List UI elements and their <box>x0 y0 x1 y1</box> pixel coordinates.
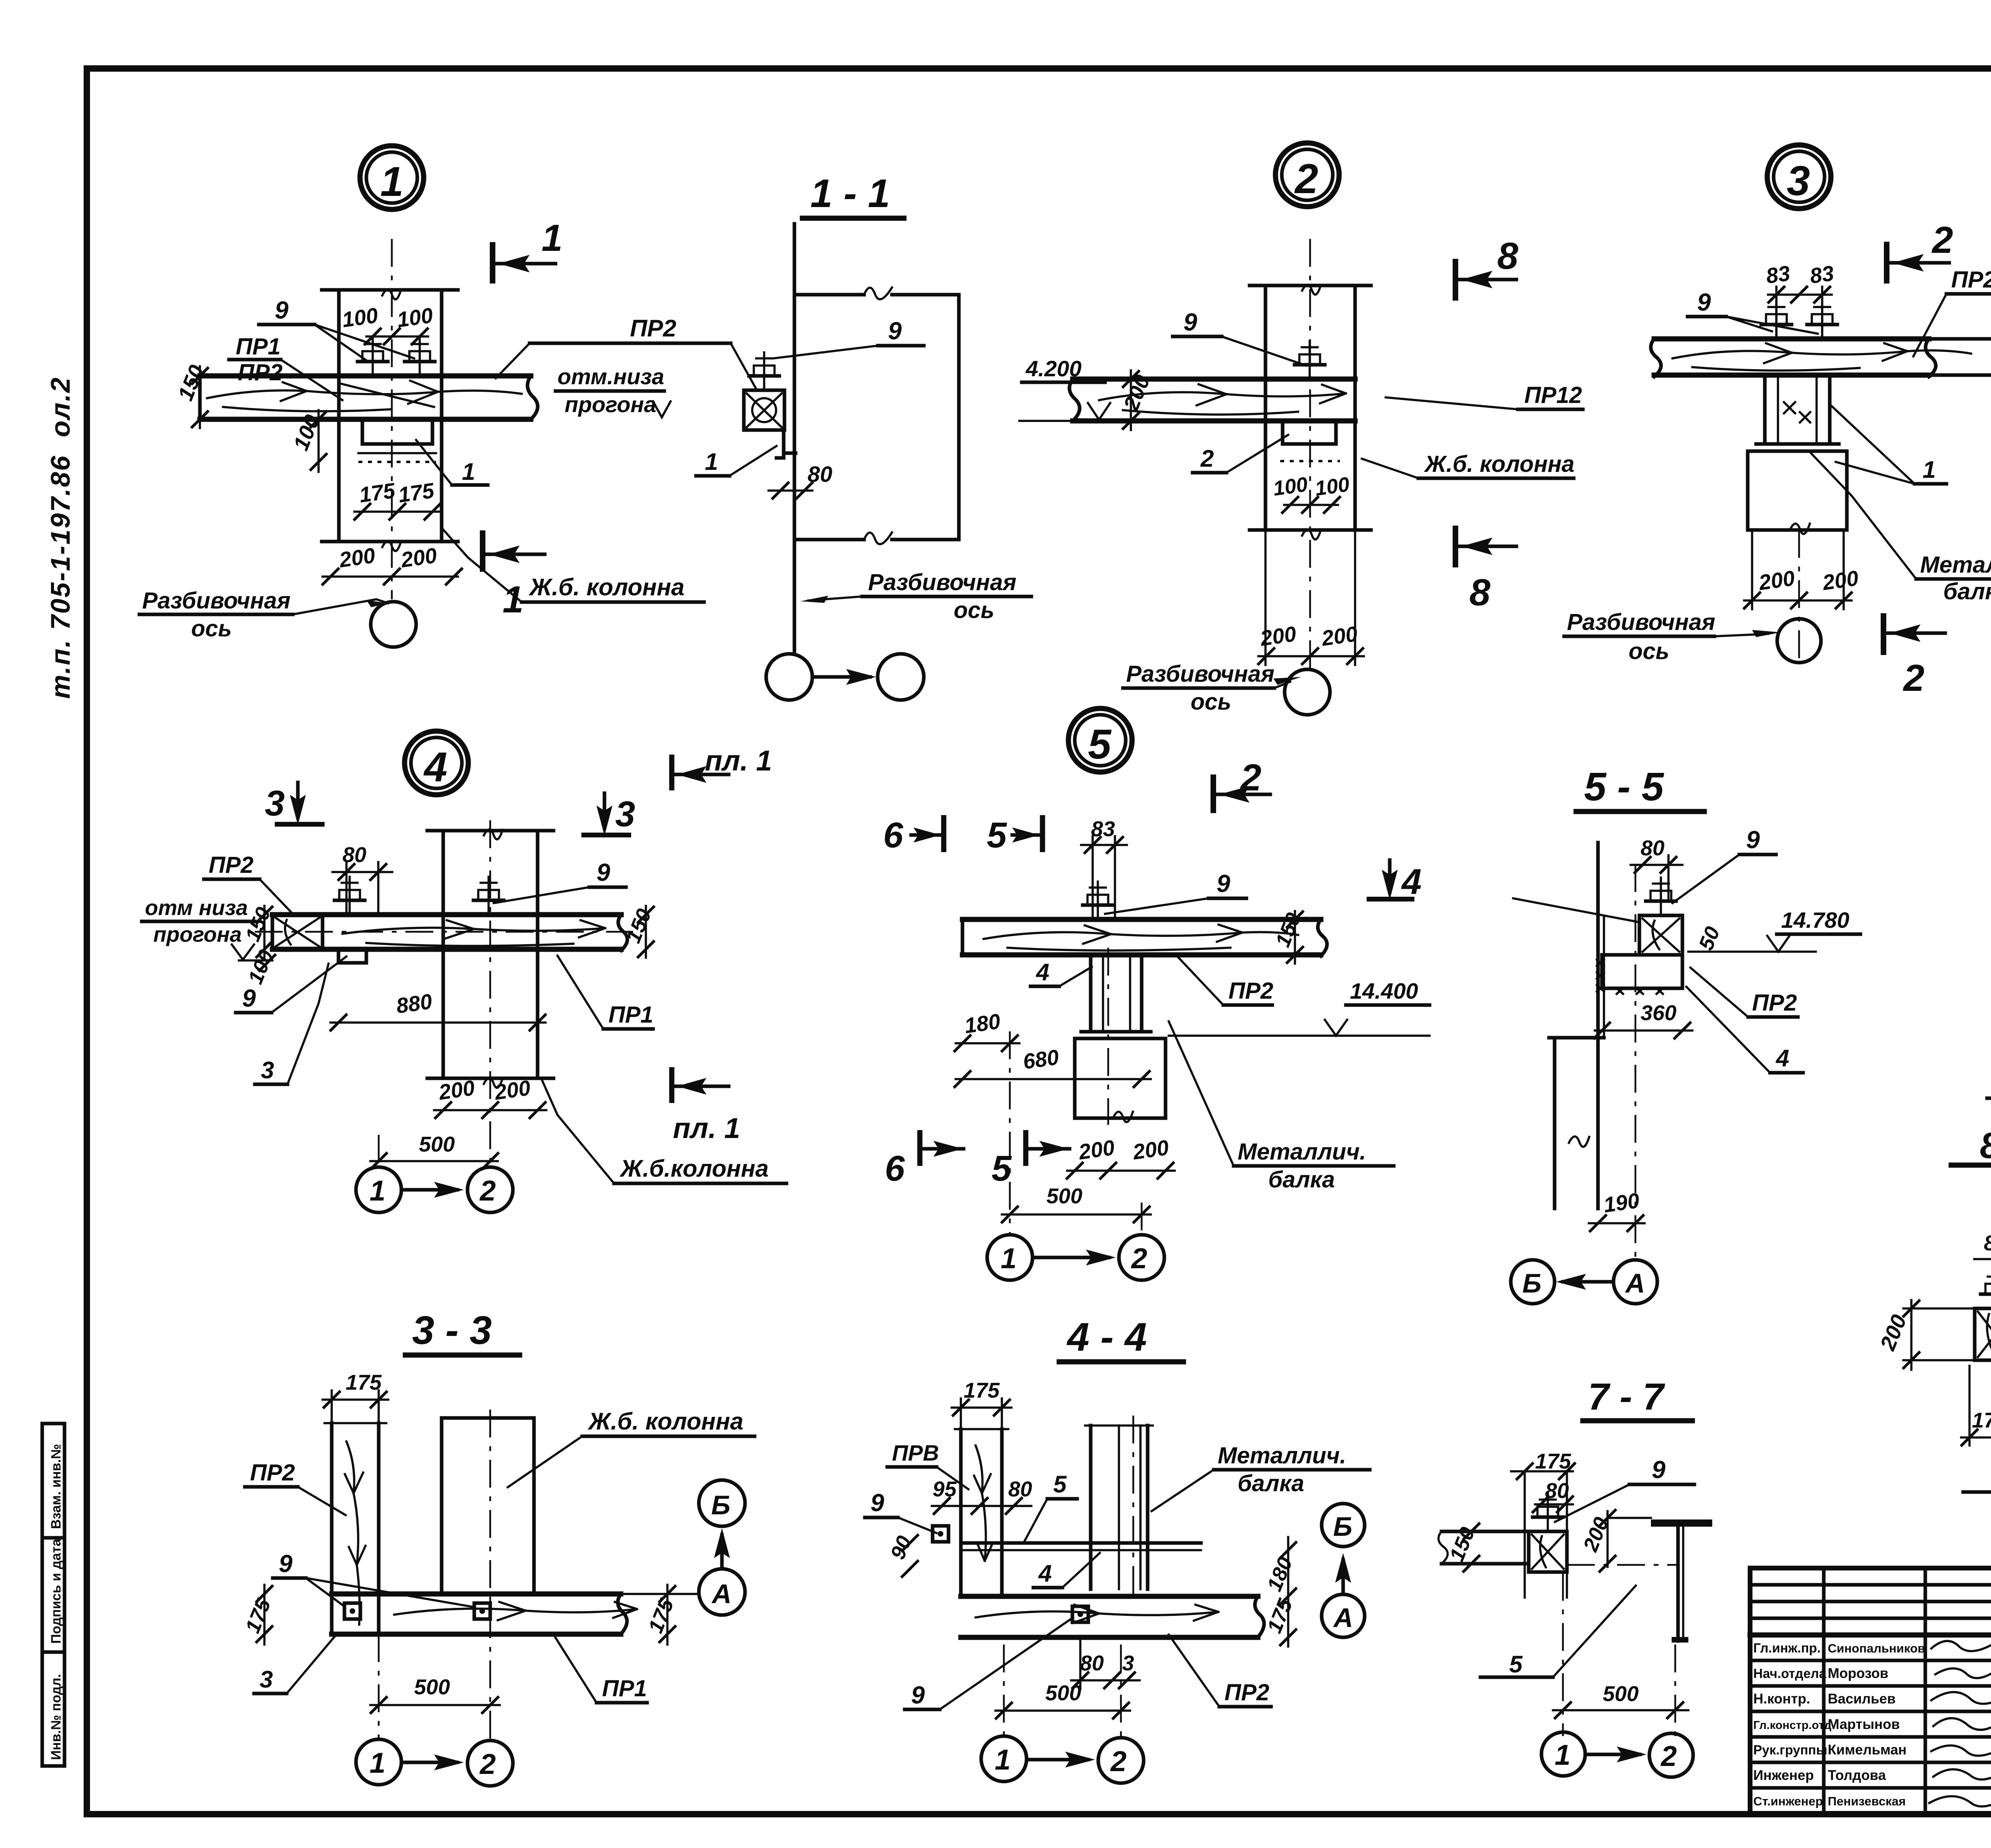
svg-text:4: 4 <box>1036 959 1049 986</box>
svg-text:4: 4 <box>1776 1045 1789 1072</box>
bolt <box>1533 1494 1563 1531</box>
anchor bolts <box>1761 301 1792 339</box>
svg-text:5: 5 <box>987 815 1007 855</box>
svg-text:Б: Б <box>1333 1512 1352 1542</box>
svg-text:8 - 8: 8 - 8 <box>1980 1125 1991 1166</box>
svg-text:прогона: прогона <box>565 392 656 417</box>
svg-text:9: 9 <box>1217 870 1230 898</box>
svg-text:680: 680 <box>1021 1045 1060 1074</box>
title 1-1 <box>802 171 904 218</box>
level 14.400 <box>1169 978 1430 1036</box>
label 3 <box>254 1636 335 1694</box>
dim 190 <box>1589 1189 1645 1232</box>
svg-text:1: 1 <box>462 458 475 485</box>
level mark 4.200 <box>1019 356 1110 421</box>
beam continuation to right <box>1932 330 1991 384</box>
vertical purlin <box>955 1429 1008 1596</box>
svg-text:Инв.№ подл.: Инв.№ подл. <box>49 1674 64 1760</box>
dim 200 left <box>1876 1300 1975 1370</box>
grid bubbles 1 2 <box>356 1167 513 1212</box>
dim 200 right of block <box>1579 1509 1651 1572</box>
svg-text:9: 9 <box>888 317 902 345</box>
rc column <box>1250 285 1371 540</box>
label Жб колонна <box>1362 451 1574 478</box>
grid bubbles 1 2 <box>1541 1732 1693 1777</box>
dim 500 <box>370 1132 499 1170</box>
svg-text:200: 200 <box>1757 566 1796 595</box>
bolt <box>1981 1271 1991 1308</box>
svg-text:175: 175 <box>358 479 397 507</box>
axis circles with arrow <box>766 654 924 700</box>
dim 500 <box>1553 1682 1688 1719</box>
svg-text:Ж.б. колонна: Ж.б. колонна <box>1424 451 1574 477</box>
svg-text:9: 9 <box>242 985 256 1012</box>
wall line <box>1513 843 1639 1035</box>
svg-text:200: 200 <box>1077 1136 1116 1164</box>
svg-text:Металлич.: Металлич. <box>1238 1139 1366 1165</box>
svg-text:Б: Б <box>711 1490 730 1520</box>
svg-text:2: 2 <box>1240 757 1261 799</box>
svg-text:200: 200 <box>493 1076 532 1105</box>
svg-text:ПР2: ПР2 <box>209 852 254 878</box>
label 1 <box>1832 406 1946 484</box>
block with grain <box>1529 1531 1567 1572</box>
label ПР2 <box>204 852 295 916</box>
label ПР2 <box>245 1460 346 1515</box>
svg-text:2: 2 <box>1130 1243 1147 1275</box>
axis dash-dot <box>1635 864 1637 1258</box>
purlin beam <box>1651 339 1971 377</box>
svg-text:Инженер: Инженер <box>1753 1768 1814 1783</box>
svg-text:1: 1 <box>370 1175 385 1207</box>
section cut 2 top <box>1887 219 1953 284</box>
steel post <box>1076 955 1156 1038</box>
column axis dash-dot <box>391 239 393 599</box>
dim 100 100 above bolts <box>340 303 434 345</box>
column <box>1549 1038 1604 1209</box>
svg-text:Ж.б. колонна: Ж.б. колонна <box>587 1408 743 1435</box>
dim 150 left <box>1445 1523 1480 1572</box>
svg-text:Синопальников: Синопальников <box>1828 1641 1925 1655</box>
svg-text:Разбивочная: Разбивочная <box>1126 661 1275 687</box>
svg-text:175: 175 <box>397 479 436 507</box>
svg-text:100: 100 <box>1272 473 1309 501</box>
dim 175 top <box>952 1379 1011 1429</box>
svg-text:ось: ось <box>954 597 994 623</box>
title 7-7 <box>1583 1376 1692 1421</box>
grid bubbles 1 2 <box>987 1235 1164 1280</box>
svg-text:1: 1 <box>1001 1243 1017 1275</box>
label Жб колонна <box>508 1408 755 1487</box>
left margin bottom cells <box>42 1424 65 1766</box>
bolt <box>1646 878 1676 915</box>
label ПР2 <box>496 315 756 388</box>
svg-text:175: 175 <box>1535 1449 1571 1473</box>
svg-text:500: 500 <box>1045 1681 1081 1705</box>
svg-text:9: 9 <box>1697 289 1711 316</box>
gusset plate lines <box>963 1543 1201 1550</box>
svg-text:360: 360 <box>1641 1001 1676 1025</box>
svg-text:ПР2: ПР2 <box>238 360 283 385</box>
block with grain <box>1975 1308 1991 1360</box>
label ПРВ <box>887 1440 968 1489</box>
axes dash-dot <box>1009 1031 1011 1234</box>
svg-text:1: 1 <box>1923 456 1936 483</box>
svg-text:3: 3 <box>1787 158 1810 204</box>
svg-text:4: 4 <box>1401 862 1422 902</box>
label Жб колонна <box>542 1079 786 1183</box>
section cut 2 bottom <box>1883 613 1945 699</box>
dim 175 right <box>644 1585 679 1645</box>
bearing bracket below <box>338 949 366 963</box>
dim 90 left <box>886 1533 919 1578</box>
cut mark пл.1 bottom <box>672 1067 740 1144</box>
label ПР2 <box>1169 1635 1271 1707</box>
cut mark 3 down left <box>265 782 325 825</box>
label Разбивочная ось <box>139 588 388 641</box>
dims 80 3 below <box>1071 1641 1140 1689</box>
svg-text:Гл.констр.отд: Гл.констр.отд <box>1753 1719 1831 1732</box>
svg-text:ПР2: ПР2 <box>250 1460 295 1486</box>
svg-text:200: 200 <box>1258 622 1298 651</box>
bolt <box>749 352 779 390</box>
svg-text:8: 8 <box>1469 571 1490 614</box>
label ПР2 <box>1177 956 1273 1005</box>
anchor bolt left <box>358 338 388 376</box>
svg-text:ПР2: ПР2 <box>1752 990 1797 1016</box>
svg-text:3: 3 <box>1122 1651 1134 1675</box>
bolt square on purlin <box>1072 1606 1088 1622</box>
grid bubbles Б А vertical <box>1322 1504 1365 1637</box>
svg-text:83: 83 <box>1764 261 1792 288</box>
svg-text:1: 1 <box>1555 1739 1571 1771</box>
rc column <box>322 289 458 551</box>
svg-text:1 - 1: 1 - 1 <box>810 171 890 216</box>
svg-text:А: А <box>1333 1603 1353 1633</box>
label 9 <box>773 317 924 358</box>
svg-text:9: 9 <box>1652 1456 1666 1484</box>
svg-text:Взам. инв.№: Взам. инв.№ <box>49 1444 64 1529</box>
svg-text:1: 1 <box>705 448 718 475</box>
svg-text:Морозов: Морозов <box>1828 1666 1888 1681</box>
section cut 8 bottom <box>1455 526 1516 614</box>
dim 150 right <box>1271 909 1305 964</box>
svg-text:ПРВ: ПРВ <box>892 1440 939 1465</box>
cut mark 5 left <box>987 815 1042 855</box>
label Металлич балка <box>1152 1443 1370 1511</box>
svg-text:100: 100 <box>1314 473 1351 501</box>
svg-text:9: 9 <box>279 1550 293 1578</box>
title 8-8 <box>1951 1125 1991 1166</box>
steel post <box>1751 375 1844 451</box>
dim 500 <box>370 1675 500 1714</box>
svg-text:3: 3 <box>261 1057 274 1083</box>
vertical purlin ПР2 <box>325 1423 386 1634</box>
svg-text:14.780: 14.780 <box>1781 907 1849 933</box>
svg-text:3: 3 <box>265 784 285 823</box>
purlin beam <box>1070 379 1355 421</box>
svg-text:9: 9 <box>597 859 610 886</box>
label 9 left <box>865 1489 937 1533</box>
label 9 with leader <box>259 297 414 360</box>
label Разбивочная ось right <box>800 569 1031 623</box>
svg-text:5: 5 <box>1509 1651 1523 1678</box>
svg-text:Н.контр.: Н.контр. <box>1753 1691 1810 1707</box>
svg-text:190: 190 <box>1602 1189 1641 1217</box>
purlin cross-section <box>744 390 784 430</box>
purlin beam <box>200 376 538 419</box>
section cut 1 top <box>493 217 563 284</box>
svg-text:1: 1 <box>542 217 563 259</box>
svg-text:9: 9 <box>1183 309 1197 336</box>
title 3-3 <box>405 1308 520 1355</box>
dims 150 left and right <box>241 904 656 958</box>
svg-text:500: 500 <box>1046 1184 1082 1208</box>
purlin beam <box>272 915 628 950</box>
svg-text:3: 3 <box>615 794 635 834</box>
dim 180 <box>954 1009 1019 1052</box>
svg-text:200: 200 <box>1320 622 1359 651</box>
steel beam plan <box>1085 1416 1153 1597</box>
label Металлич балка left <box>1987 1032 1991 1126</box>
svg-text:ось: ось <box>1629 638 1669 664</box>
axis circle <box>371 602 416 647</box>
dim 880 <box>330 990 546 1031</box>
bearing block with cross grain <box>276 915 323 949</box>
grid bubbles 1 2 <box>981 1736 1144 1783</box>
bolt squares <box>344 1603 490 1619</box>
svg-text:ПР2: ПР2 <box>630 315 677 342</box>
svg-text:2: 2 <box>1110 1746 1127 1778</box>
svg-text:Ст.инженер: Ст.инженер <box>1753 1794 1823 1808</box>
svg-text:балка: балка <box>1268 1167 1335 1193</box>
cut mark 5 bottom <box>992 1130 1070 1189</box>
signature table <box>1750 1583 1991 1587</box>
label 9 <box>1688 289 1818 334</box>
svg-text:ось: ось <box>191 616 232 641</box>
label 2 piece <box>1193 435 1288 473</box>
svg-text:Б: Б <box>1522 1268 1541 1298</box>
svg-text:80: 80 <box>1984 1231 1991 1255</box>
svg-text:500: 500 <box>419 1132 455 1156</box>
svg-text:80: 80 <box>1008 1477 1032 1501</box>
dim 200 200 <box>434 1076 546 1119</box>
label 9 right <box>494 859 626 903</box>
dim 200 200 <box>1066 1136 1175 1179</box>
label Металлич балка <box>1810 452 1991 604</box>
grid bubbles 1 2 <box>356 1739 513 1786</box>
detail 4 bubble <box>405 731 468 795</box>
svg-text:6: 6 <box>885 1149 905 1189</box>
svg-text:4: 4 <box>423 744 447 790</box>
grid bubbles Б А vertical <box>699 1480 745 1615</box>
svg-text:1: 1 <box>995 1744 1011 1776</box>
svg-text:прогона: прогона <box>153 923 242 946</box>
pedestal <box>1075 1038 1166 1122</box>
label ПР12 <box>1386 382 1583 409</box>
rc column <box>442 1418 534 1594</box>
dim 200 200 <box>322 544 463 585</box>
dashed connection line <box>1567 1564 1676 1566</box>
svg-text:Рук.группы: Рук.группы <box>1753 1742 1827 1757</box>
svg-text:83: 83 <box>1091 817 1115 841</box>
purlin strip from left <box>1438 1531 1529 1564</box>
svg-text:2: 2 <box>479 1175 496 1207</box>
svg-text:200: 200 <box>337 544 377 572</box>
grid bubbles Б А <box>1511 1260 1657 1304</box>
svg-text:200: 200 <box>1821 566 1860 595</box>
dim 150 left end <box>173 362 209 428</box>
label ПР1 <box>554 1636 647 1703</box>
dim 680 <box>954 1045 1151 1088</box>
label 9 lower <box>236 956 346 1013</box>
bearing plate under beam <box>358 419 436 462</box>
detail 2 bubble <box>1275 143 1339 207</box>
svg-text:Мартынов: Мартынов <box>1828 1717 1900 1732</box>
svg-text:9: 9 <box>275 297 289 324</box>
svg-text:100: 100 <box>395 303 434 332</box>
svg-text:2: 2 <box>1660 1740 1677 1772</box>
label отм низа прогона <box>555 364 671 417</box>
anchor bolt right <box>405 338 435 376</box>
dim 100 100 <box>1272 473 1351 514</box>
svg-text:балка: балка <box>1238 1471 1304 1496</box>
svg-text:6: 6 <box>883 815 904 855</box>
svg-text:80: 80 <box>1080 1651 1104 1675</box>
dim 80 <box>1532 1479 1574 1513</box>
svg-text:5: 5 <box>1088 721 1112 768</box>
horizontal purlin <box>961 1596 1264 1637</box>
dims 180 175 right <box>1263 1537 1297 1647</box>
svg-text:500: 500 <box>414 1675 450 1699</box>
svg-text:Подпись и дата: Подпись и дата <box>49 1538 64 1644</box>
svg-text:Нач.отдела: Нач.отдела <box>1753 1666 1827 1681</box>
cut mark 6 left <box>883 815 944 855</box>
cut mark 4 right <box>1367 860 1422 902</box>
label 9 <box>1555 1456 1694 1522</box>
label ПР1 / ПР2 <box>229 334 342 400</box>
svg-text:5: 5 <box>1053 1471 1067 1498</box>
svg-text:ПР2: ПР2 <box>1224 1680 1269 1705</box>
axes dash-dot <box>378 1634 380 1740</box>
outer box <box>1750 1568 1991 1814</box>
detail 5 bubble <box>1068 708 1132 772</box>
axes dash-dot <box>1003 1645 1005 1736</box>
label 1 piece <box>416 440 488 485</box>
svg-text:2: 2 <box>1200 445 1214 472</box>
axis dash-dot <box>1798 530 1800 663</box>
label ПР1 <box>557 956 653 1029</box>
dim 100 <box>244 946 278 987</box>
svg-text:А: А <box>1625 1268 1645 1298</box>
horizontal purlin ПР1 <box>332 1594 697 1634</box>
cut mark 6 bottom <box>885 1130 964 1189</box>
detail 1 bubble <box>360 146 424 209</box>
signatures squiggles <box>1931 1641 1991 1651</box>
dim 200 200 <box>1743 530 1860 609</box>
dim 83 <box>1081 817 1127 916</box>
wood grain <box>207 381 522 411</box>
dim 360 <box>1593 1001 1692 1039</box>
axes dash-dot <box>1562 1573 1564 1736</box>
label 9 <box>1173 309 1306 366</box>
cut mark 3 down right <box>581 793 635 836</box>
svg-text:1: 1 <box>380 158 403 205</box>
svg-text:14.400: 14.400 <box>1350 978 1418 1003</box>
svg-text:80: 80 <box>1641 836 1664 860</box>
pedestal <box>1748 451 1847 534</box>
svg-text:2: 2 <box>1931 219 1953 261</box>
dim 80 <box>769 462 832 499</box>
label Жб колонна <box>443 530 704 602</box>
bearing plate <box>1280 421 1340 461</box>
label 9 bottom <box>905 1617 1073 1709</box>
dim 80 <box>332 843 392 912</box>
svg-text:200: 200 <box>1131 1136 1170 1164</box>
svg-text:Пенизевская: Пенизевская <box>1828 1794 1906 1808</box>
dim 200 beam height <box>1119 370 1155 430</box>
dim 175 50 <box>1961 1366 1991 1446</box>
dim 500 <box>995 1681 1130 1719</box>
svg-text:А: А <box>711 1579 731 1609</box>
section cut 8 top <box>1455 235 1518 301</box>
dim 175 <box>1511 1449 1576 1598</box>
svg-text:7 - 7: 7 - 7 <box>1588 1376 1665 1418</box>
label 4 left <box>1031 959 1092 986</box>
dim 175 left <box>241 1585 276 1645</box>
side bolt on purlin <box>933 1526 949 1542</box>
dim 83 83 <box>1764 261 1835 339</box>
steel tee beam <box>1651 1523 1712 1641</box>
label 9 <box>1105 870 1246 914</box>
svg-text:Металлич.: Металлич. <box>1218 1443 1346 1469</box>
wall line <box>793 224 796 653</box>
svg-text:Разбивочная: Разбивочная <box>142 588 291 614</box>
axis circle <box>1777 619 1821 663</box>
svg-text:пл. 1: пл. 1 <box>673 1113 740 1144</box>
title 5-5 <box>1576 765 1704 812</box>
svg-text:175: 175 <box>346 1371 382 1394</box>
svg-text:2: 2 <box>1903 657 1925 699</box>
svg-text:Васильев: Васильев <box>1828 1691 1895 1707</box>
label 4 <box>1686 987 1803 1073</box>
svg-text:200: 200 <box>399 544 438 572</box>
svg-text:180: 180 <box>963 1009 1002 1038</box>
dim 175 top <box>323 1371 388 1423</box>
svg-text:ось: ось <box>1191 689 1231 715</box>
dim 80 <box>1631 836 1682 900</box>
section cut 2 top <box>1213 757 1270 813</box>
dims 95 80 <box>932 1477 1032 1515</box>
anchor bolt <box>1083 882 1113 919</box>
svg-text:т.п. 705-1-197.86 ол.2: т.п. 705-1-197.86 ол.2 <box>45 376 76 699</box>
label Разбивочная ось <box>1564 609 1781 664</box>
svg-text:ПР1: ПР1 <box>602 1676 647 1701</box>
purlin beam <box>962 919 1327 956</box>
label 1 piece <box>696 446 776 476</box>
angle bracket <box>776 430 796 458</box>
svg-text:Разбивочная: Разбивочная <box>868 569 1017 595</box>
svg-text:200: 200 <box>437 1076 476 1105</box>
label Разбивочная ось <box>1123 661 1301 715</box>
svg-text:ПР2: ПР2 <box>1951 267 1991 293</box>
svg-text:3 - 3: 3 - 3 <box>412 1308 492 1353</box>
column axis <box>1309 239 1311 669</box>
svg-text:ПР12: ПР12 <box>1524 382 1582 408</box>
axis circle <box>1285 669 1330 715</box>
svg-text:880: 880 <box>395 990 434 1018</box>
svg-text:4: 4 <box>1038 1560 1052 1587</box>
